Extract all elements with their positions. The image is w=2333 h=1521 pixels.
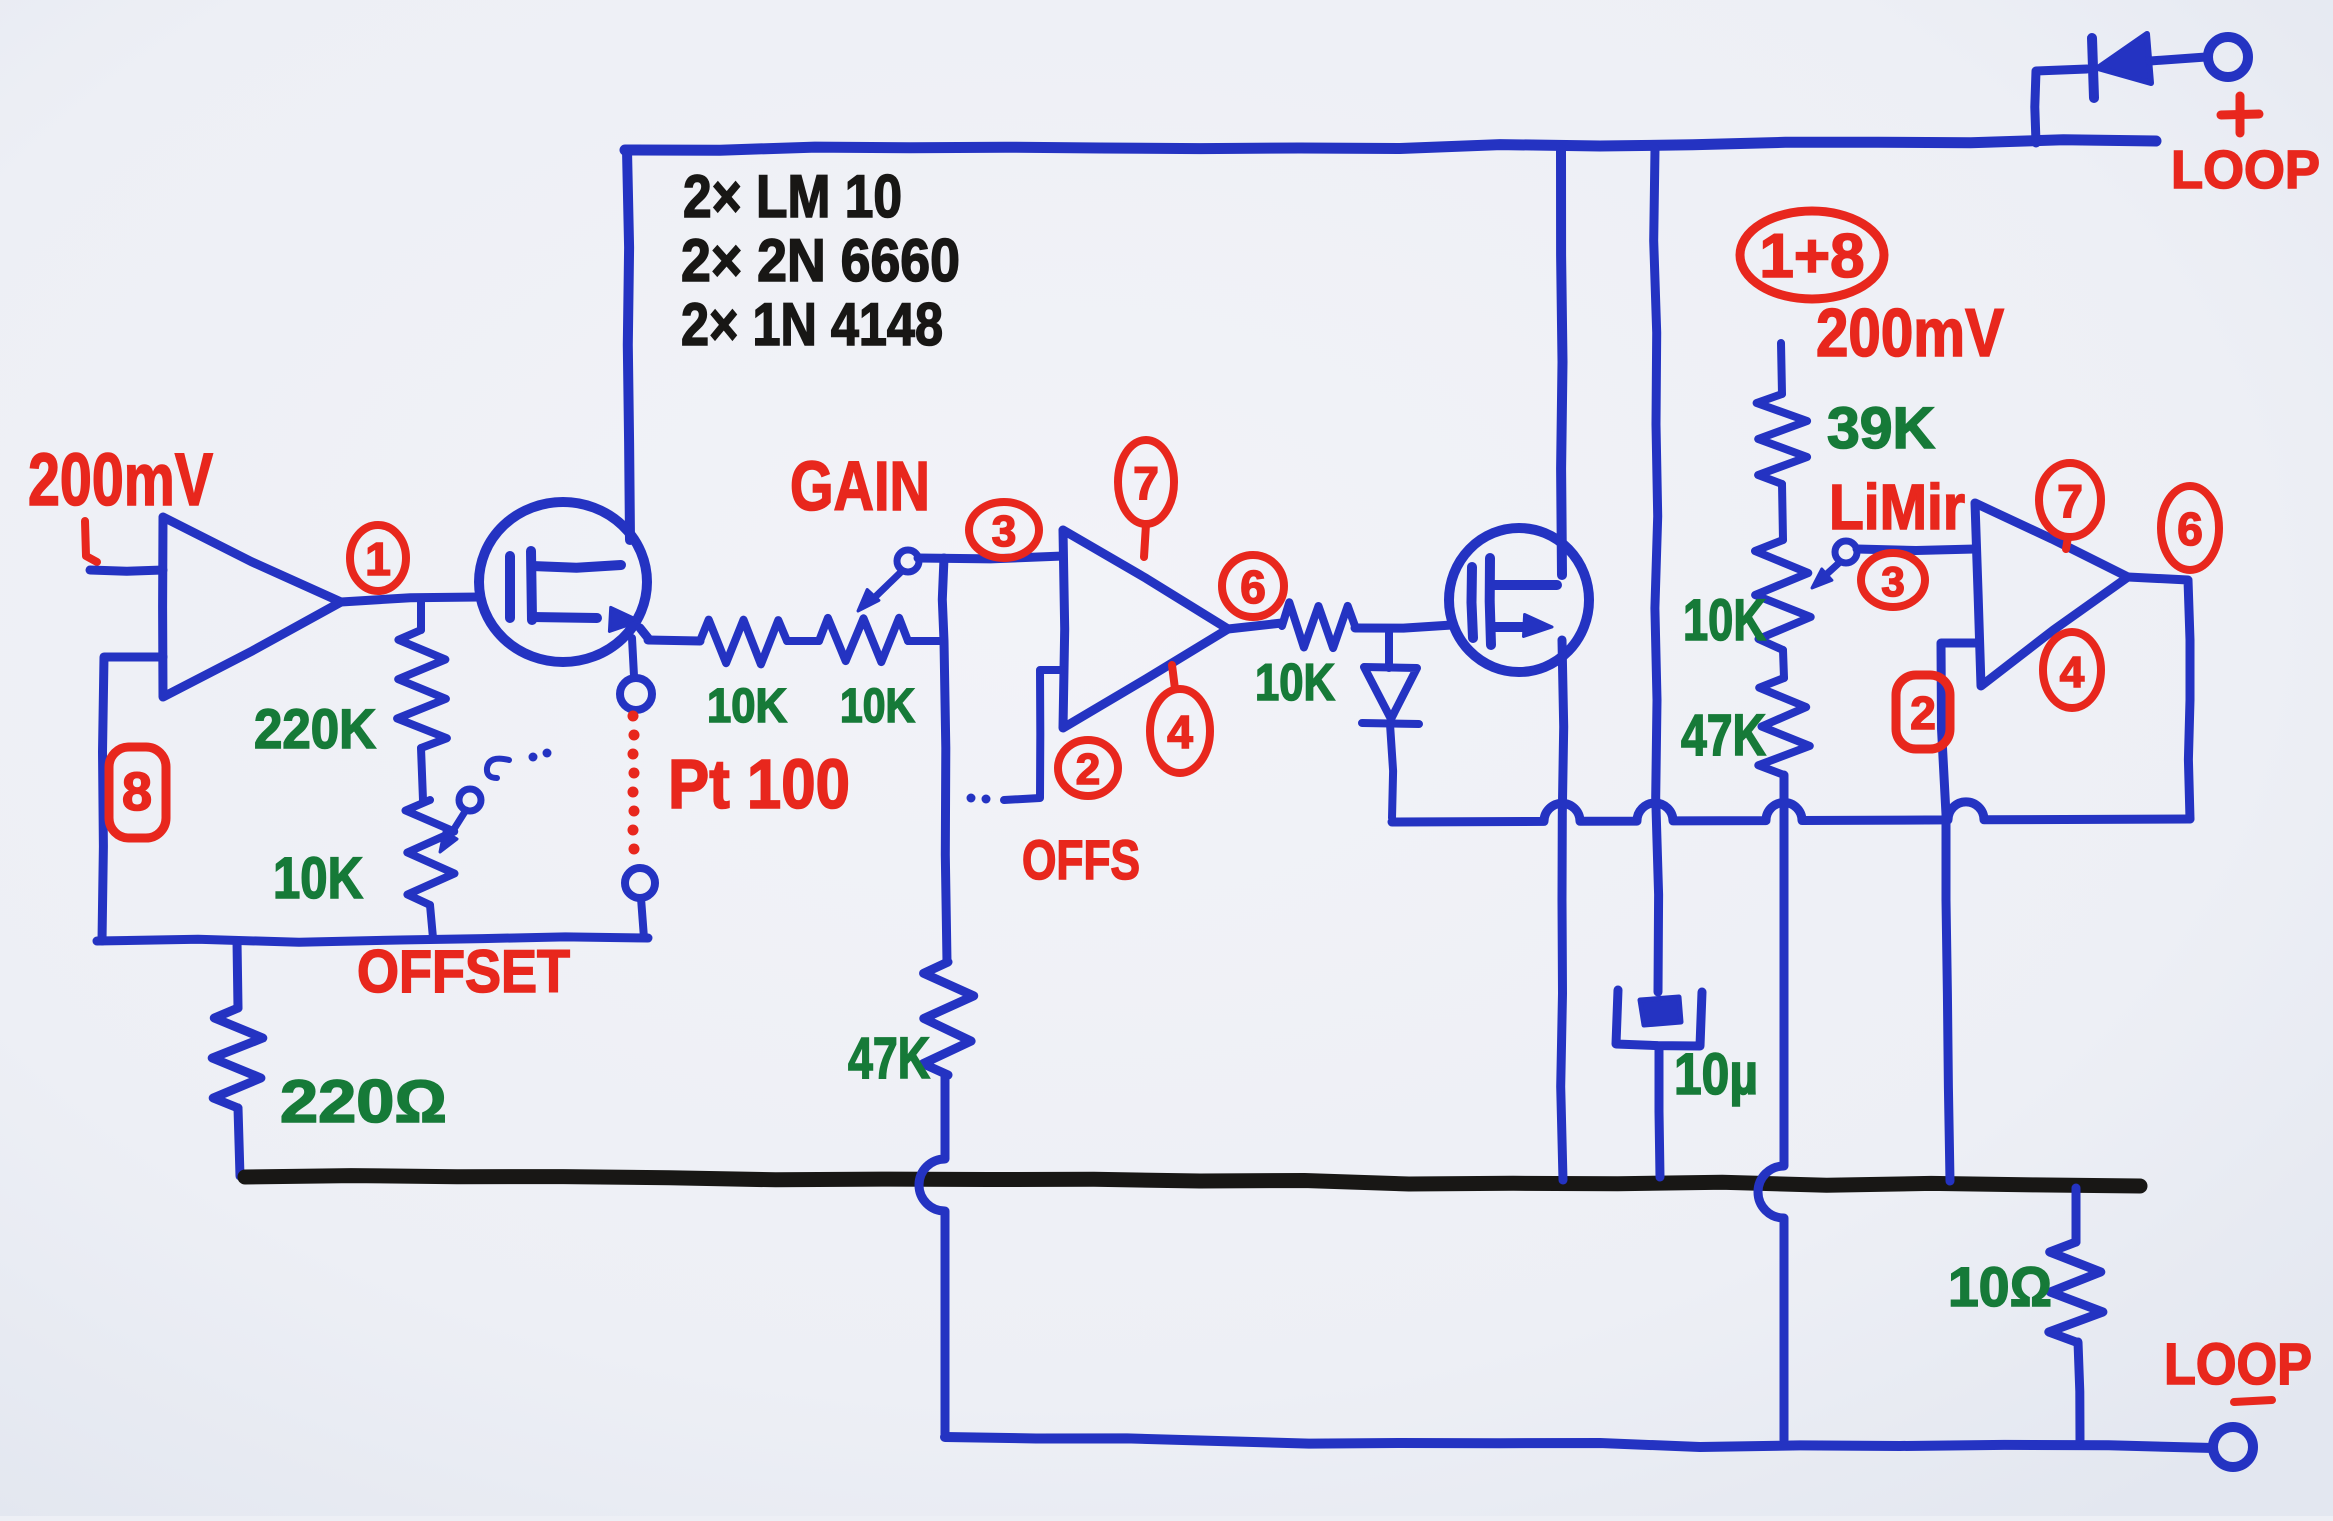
- pin 6 (U2): [1222, 555, 1284, 617]
- resistor 47K (mid): [923, 962, 974, 1075]
- wire U1 -input: [102, 657, 163, 941]
- svg-text:6: 6: [2177, 503, 2203, 555]
- resistor 10K (gain a): [700, 620, 787, 665]
- svg-text:10K: 10K: [707, 680, 787, 733]
- svg-text:LOOP: LOOP: [2171, 140, 2320, 200]
- resistor 10K (U2 out): [1282, 602, 1355, 648]
- wire U2 output: [1228, 623, 1282, 629]
- wire 47K right down to bottom rail (hops bus): [1758, 775, 1784, 1440]
- transistor Q1 2N6660: [479, 502, 647, 662]
- svg-text:200mV: 200mV: [1816, 295, 2004, 371]
- wire Q1 source to gain resistors: [648, 640, 700, 641]
- pin 8 (U1): [109, 747, 166, 838]
- label + (loop plus): [2221, 114, 2259, 115]
- pin 4 (U2): [1150, 689, 1210, 773]
- svg-text:200mV: 200mV: [28, 438, 213, 521]
- wire 47K down to bottom rail (hops bus): [919, 1075, 945, 1434]
- op-amp U2 LM10: [1063, 530, 1228, 728]
- wire chain top stub: [1781, 343, 1782, 394]
- wire V+ top rail: [625, 140, 2156, 150]
- terminal Pt100 lower: [625, 868, 655, 898]
- pin 3 (U2): [969, 502, 1039, 558]
- terminal LOOP-: [2213, 1427, 2253, 1467]
- svg-text:10K: 10K: [1255, 654, 1335, 712]
- pin 7 (U3): [2039, 463, 2101, 537]
- wire Q2 source down to bus: [1561, 640, 1564, 1180]
- diode D1 1N4148 (loop+): [2035, 69, 2087, 143]
- wire U3 -input: [1941, 643, 1978, 1181]
- svg-text:2× LM 10: 2× LM 10: [683, 163, 902, 230]
- pin 2 (U3): [1896, 675, 1950, 749]
- svg-text:3: 3: [992, 507, 1016, 556]
- wire Pt100 lower to box: [641, 898, 644, 938]
- op-amp U1 LM10: [163, 517, 341, 697]
- resistor 220K: [417, 600, 425, 630]
- svg-text:8: 8: [122, 762, 152, 822]
- potentiometer 10K (offset): [406, 800, 455, 905]
- diode D2 1N4148: [1385, 628, 1393, 668]
- svg-text:7: 7: [2057, 475, 2083, 527]
- svg-text:10K: 10K: [1683, 588, 1766, 653]
- svg-text:220K: 220K: [254, 697, 376, 760]
- wire bottom rail (loop-): [945, 1437, 2213, 1448]
- svg-text:3: 3: [1881, 558, 1904, 605]
- op-amp U3 LM10: [1975, 503, 2128, 686]
- svg-text:2× 1N 4148: 2× 1N 4148: [681, 291, 943, 358]
- wire U3 output down to feedback line: [2128, 577, 2190, 819]
- pin 3 (U3): [1861, 553, 1925, 607]
- resistor 39K: [1757, 394, 1808, 484]
- Pt100 dotted line: [628, 711, 639, 722]
- potentiometer 10K (limit): [1755, 540, 1811, 650]
- svg-text:Pt 100: Pt 100: [668, 745, 850, 823]
- terminal LOOP+: [2208, 37, 2248, 77]
- wire wiper to U2 pin3: [918, 556, 1063, 559]
- svg-text:OFFS: OFFS: [1022, 828, 1140, 891]
- resistor 47K (right): [1758, 678, 1810, 775]
- svg-text:7: 7: [1133, 457, 1159, 509]
- gain pot wiper: [897, 550, 919, 572]
- transistor Q2 2N6660: [1449, 528, 1589, 672]
- pin 4 (U3): [2043, 632, 2101, 708]
- terminal Pt100 upper: [620, 678, 652, 710]
- svg-text:220Ω: 220Ω: [280, 1068, 447, 1135]
- capacitor C1 10u: [1640, 997, 1681, 1025]
- wire gain node down to 47K: [942, 558, 947, 962]
- pin 6 (U3): [2161, 486, 2219, 570]
- svg-text:47K: 47K: [1681, 703, 1766, 768]
- pin 7 (U2): [1118, 440, 1174, 524]
- label 1+8 (circled): [1740, 211, 1884, 299]
- wire limit wiper to U3 pin3: [1857, 549, 1975, 551]
- svg-text:4: 4: [2060, 648, 2085, 697]
- svg-text:GAIN: GAIN: [790, 447, 930, 525]
- svg-text:1: 1: [365, 533, 391, 585]
- svg-text:10K: 10K: [840, 680, 915, 733]
- resistor 10K (gain b, pot): [787, 637, 819, 645]
- svg-text:39K: 39K: [1827, 396, 1935, 461]
- svg-text:2: 2: [1076, 745, 1100, 794]
- wire rail to capacitor C1: [1654, 149, 1659, 992]
- svg-text:1+8: 1+8: [1759, 222, 1864, 291]
- resistor 10R: [2072, 1188, 2081, 1242]
- wire source feedback line (with hops): [1392, 802, 2190, 822]
- resistor 220R: [237, 941, 238, 1008]
- svg-text:4: 4: [1167, 706, 1193, 758]
- svg-text:2: 2: [1910, 687, 1936, 739]
- svg-text:6: 6: [1240, 561, 1266, 613]
- wire rail to Q1 drain: [627, 150, 630, 540]
- wire rail to Q2 drain: [1561, 149, 1563, 575]
- svg-text:10K: 10K: [273, 846, 363, 911]
- pin 2 (U2): [1058, 740, 1118, 796]
- svg-text:10µ: 10µ: [1674, 1042, 1758, 1107]
- wire U1 output to Q1 gate: [341, 597, 480, 602]
- wire U1 feedback box bottom: [97, 937, 648, 942]
- svg-text:LiMir: LiMir: [1829, 471, 1965, 543]
- svg-text:47K: 47K: [848, 1026, 930, 1091]
- svg-text:OFFSET: OFFSET: [357, 938, 570, 1005]
- wire U2 -input (offs stub): [1004, 670, 1063, 800]
- ground bus (black): [245, 1176, 2140, 1186]
- svg-text:LOOP: LOOP: [2164, 1332, 2312, 1397]
- pin 1 (U1 output): [350, 525, 406, 591]
- wire Q1 to Pt100 terminal: [632, 638, 634, 676]
- wire U1 +input: [90, 570, 163, 571]
- svg-text:2× 2N 6660: 2× 2N 6660: [681, 227, 960, 294]
- svg-text:10Ω: 10Ω: [1948, 1255, 2052, 1318]
